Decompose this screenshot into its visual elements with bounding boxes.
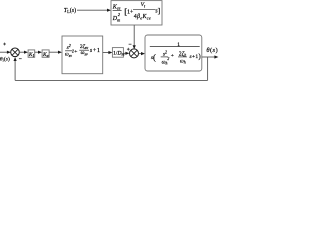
svg-text:θ(s): θ(s) <box>206 47 218 54</box>
svg-text:s2: s2 <box>163 50 167 58</box>
wire input arrow into junction 1 <box>0 51 11 54</box>
svg-text:ωh2: ωh2 <box>162 57 170 65</box>
block 1/Dm <box>112 48 124 58</box>
svg-text:4βeKce: 4βeKce <box>134 14 151 20</box>
block motor dynamics 1/[s(s^2/ωh^2+2ζh/ωh s+1)] <box>145 35 202 71</box>
wire feedback bottom rail <box>15 79 208 81</box>
plus sign at input of junction 1 <box>3 43 6 46</box>
svg-text:[1+: [1+ <box>124 7 133 17</box>
svg-text:Kce: Kce <box>112 4 121 10</box>
minus sign at junction 2 top input <box>129 43 132 45</box>
wire K1 to Ka <box>35 51 42 54</box>
block U1 disturbance transfer Kce/Dm^2 [1+Vt/(4βe Kce) s] <box>111 1 162 25</box>
svg-text:s2: s2 <box>67 43 71 51</box>
wire feedback up into junction 1 <box>14 57 17 80</box>
svg-text:s]: s] <box>155 6 160 15</box>
wire output arrow <box>202 55 219 58</box>
svg-text:1: 1 <box>177 42 180 48</box>
svg-text:K1: K1 <box>28 52 35 58</box>
svg-text:1/Dm: 1/Dm <box>113 51 124 57</box>
block Ka amplifier <box>42 50 49 58</box>
svg-text:TL(s): TL(s) <box>64 7 76 14</box>
svg-text:θi(s): θi(s) <box>0 55 10 62</box>
wire servo valve block to 1/Dm <box>103 51 113 54</box>
summing junction J2 <box>130 49 139 58</box>
svg-text:Ka: Ka <box>42 52 49 58</box>
wire Ka to servo valve block <box>49 51 62 54</box>
wire 1/Dm to junction 2 <box>123 52 129 55</box>
wire disturbance block down to summing junction 2 <box>133 25 136 49</box>
plus sign at junction 2 left input <box>127 48 130 51</box>
node T_L(s) disturbance input label <box>64 7 76 14</box>
svg-text:ωsv: ωsv <box>81 50 88 57</box>
summing junction J1 <box>11 48 20 57</box>
block K1 amplifier <box>28 50 35 58</box>
wire T_L(s) to disturbance block <box>77 9 111 12</box>
svg-text:+: + <box>74 49 77 55</box>
svg-text:s+1: s+1 <box>90 48 101 54</box>
minus sign at junction 1 feedback input <box>19 58 22 60</box>
svg-text:Vt: Vt <box>141 2 146 8</box>
svg-text:s+1): s+1) <box>190 53 202 61</box>
block servo valve dynamics s^2/ωsv^2 + 2ζsv/ωsv s + 1 <box>62 36 103 74</box>
wire feedback tap down from output line <box>207 57 209 80</box>
svg-text:ωh: ωh <box>180 59 186 65</box>
svg-text:Dm2: Dm2 <box>112 12 121 22</box>
svg-text:+: + <box>171 53 174 59</box>
wire junction 1 to block K1 <box>19 51 28 54</box>
svg-text:s(: s( <box>151 52 156 62</box>
svg-text:2ζh: 2ζh <box>179 51 187 58</box>
wire junction 2 to motor block <box>139 52 146 55</box>
